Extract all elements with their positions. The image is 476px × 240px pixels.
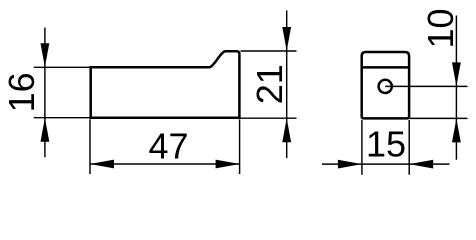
- extension line 21 top: [241, 50, 297, 52]
- side view step line: [362, 66, 409, 69]
- svg-text:15: 15: [366, 124, 406, 165]
- dimension line 16: [44, 28, 46, 158]
- arrowhead 47 right (points right): [216, 160, 240, 169]
- svg-text:16: 16: [1, 72, 42, 112]
- hook body side view outline: [362, 52, 409, 118]
- dimension line 47: [90, 163, 240, 165]
- extension line 47 left: [89, 119, 91, 174]
- arrowhead 10 bottom (points up): [452, 118, 461, 142]
- svg-text:10: 10: [420, 8, 461, 48]
- arrowhead 10 top (points down): [452, 62, 461, 86]
- extension line 15 left: [361, 120, 363, 175]
- arrowhead 21 top (points down): [282, 27, 291, 51]
- extension line 16 bottom: [34, 117, 90, 119]
- svg-text:47: 47: [148, 126, 188, 167]
- extension line 16 top: [34, 66, 90, 68]
- extension line 10 bottom: [410, 117, 468, 119]
- hole center line: [385, 85, 467, 87]
- arrowhead 21 bottom (points up): [282, 118, 291, 142]
- arrowhead 16 top (points down): [41, 43, 50, 67]
- extension line 47 right: [239, 119, 241, 174]
- extension line 21 bottom: [241, 117, 297, 119]
- arrowhead 15 right (points left): [409, 160, 433, 169]
- dimension line 15: [322, 163, 450, 165]
- arrowhead 16 bottom (points up): [41, 118, 50, 142]
- dimension line 10: [455, 16, 457, 160]
- svg-text:21: 21: [249, 64, 290, 104]
- hook body front view outline: [91, 51, 240, 118]
- mounting hole: [379, 80, 392, 93]
- dimension line 21: [286, 11, 288, 159]
- arrowhead 15 left (points right): [338, 160, 362, 169]
- extension line 15 right: [408, 120, 410, 175]
- arrowhead 47 left (points left): [90, 160, 114, 169]
